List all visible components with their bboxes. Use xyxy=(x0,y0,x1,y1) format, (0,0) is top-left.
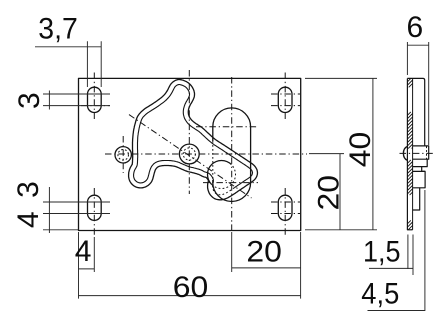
centerline vertical through pivot xyxy=(188,70,190,194)
keeper emboss capsule hidden left edge (dotted) xyxy=(212,141,214,180)
latch lever flange hidden (dotted) heel section xyxy=(213,183,235,194)
cam disc visible arc xyxy=(207,160,231,184)
side view outline plate and lever profile xyxy=(407,78,428,210)
plate outline front view 60x40 xyxy=(79,78,301,230)
side view hidden rivet line (dotted) xyxy=(426,146,428,159)
centerline stop pin vertical xyxy=(122,136,124,173)
centerline slot horizontal right at y=105.6 xyxy=(271,105,300,107)
latch lever outer outline xyxy=(129,80,258,200)
dim 20 right lines xyxy=(305,154,377,231)
centerline slot vertical bottom-right xyxy=(284,188,286,237)
centerline slot vertical bottom-left xyxy=(93,188,95,237)
svg-text:4: 4 xyxy=(75,235,92,268)
dim 1,5 lines xyxy=(369,235,413,276)
side view plate back face xyxy=(412,78,414,229)
centerline slot horizontal left at y=213.5 xyxy=(81,213,110,215)
stop pin outer circle xyxy=(115,147,131,163)
section hatching of plate xyxy=(407,78,412,229)
cam disc hidden arc (dotted) xyxy=(212,165,236,189)
dim 4 bottom-left lines xyxy=(79,232,95,299)
dim 3,7 lines xyxy=(35,41,101,87)
pivot rivet outer circle xyxy=(179,144,199,164)
side view rivet head bulge xyxy=(403,146,407,160)
slot hole bottom-left 3.7x3 xyxy=(88,195,102,220)
centerline horizontal through pivot xyxy=(105,153,307,155)
centerline capsule top arc center xyxy=(196,126,258,128)
centerline slot vertical top-right xyxy=(284,73,286,120)
centerline capsule bottom arc center xyxy=(203,182,258,184)
svg-text:40: 40 xyxy=(344,132,377,168)
dim 4,5 lines xyxy=(368,190,425,311)
dim 20 bottom lines xyxy=(232,232,301,272)
dim 60 lines xyxy=(79,232,301,299)
centerline slot horizontal left at y=202.0 xyxy=(81,201,110,203)
latch lever inner flange line xyxy=(134,85,253,188)
dim 40 lines xyxy=(305,78,377,229)
svg-text:20: 20 xyxy=(246,236,282,269)
svg-text:20: 20 xyxy=(313,175,346,211)
dim 6 lines xyxy=(407,42,428,145)
stop pin hidden circle (dotted) xyxy=(118,150,129,161)
slot hole top-right 3.7x3 xyxy=(278,87,292,112)
pivot rivet hidden circle (dotted) xyxy=(183,148,195,160)
svg-text:6: 6 xyxy=(407,11,424,44)
svg-text:60: 60 xyxy=(173,271,209,304)
centerline vertical capsule axis xyxy=(231,77,233,230)
centerline slot horizontal right at y=94.0 xyxy=(271,93,300,95)
svg-text:3: 3 xyxy=(13,92,46,109)
dim 3 bottom lines xyxy=(43,187,110,233)
slot hole top-left 3.7x3 xyxy=(88,87,102,112)
centerline slot horizontal left at y=94.0 xyxy=(81,93,110,95)
centerline diagonal lever axis xyxy=(129,115,252,198)
side view plate front face xyxy=(407,78,412,229)
centerline slot horizontal left at y=105.6 xyxy=(81,105,110,107)
dim 3 top lines xyxy=(43,91,110,110)
svg-text:4: 4 xyxy=(12,211,45,228)
svg-text:1,5: 1,5 xyxy=(363,235,401,268)
keeper emboss capsule visible outline xyxy=(213,108,251,202)
centerline slot horizontal right at y=213.5 xyxy=(271,213,300,215)
svg-text:4,5: 4,5 xyxy=(361,277,399,310)
side view hub horizontal edges xyxy=(413,146,428,188)
svg-text:3,7: 3,7 xyxy=(38,12,78,45)
slot hole bottom-right 3.7x3 xyxy=(278,195,292,220)
centerline slot horizontal right at y=202.0 xyxy=(271,201,300,203)
centerline slot vertical top-left xyxy=(93,73,95,120)
centerline side view horizontal xyxy=(400,152,434,154)
svg-text:3: 3 xyxy=(12,181,45,198)
